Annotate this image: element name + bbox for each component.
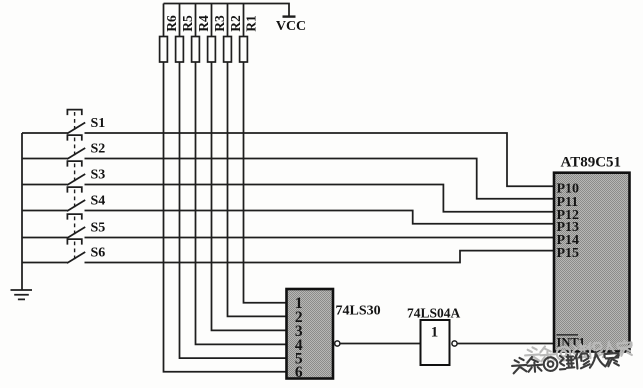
svg-text:1: 1 — [431, 325, 439, 341]
svg-text:R6: R6 — [164, 15, 179, 32]
svg-text:R2: R2 — [228, 15, 243, 32]
switch S5 actuator dashed stem — [74, 217, 76, 238]
switch S2 actuator dashed stem — [74, 138, 76, 159]
switch S4 left wire — [22, 210, 68, 212]
switch S3 button cap — [67, 161, 81, 167]
wire S3 route to P12 — [85, 185, 555, 212]
switch S4 arm — [67, 200, 85, 211]
resistor R5 body — [176, 37, 184, 63]
ground — [11, 290, 33, 299]
watermark dark text — [512, 350, 620, 373]
svg-text:VCC: VCC — [276, 19, 306, 34]
wire column R2 to 74LS30 pin2 — [228, 62, 287, 316]
switch S1 arm — [67, 123, 85, 134]
ground bus wire — [21, 133, 23, 290]
switch S6 button cap — [67, 239, 81, 245]
svg-text:R1: R1 — [244, 15, 259, 32]
wire resistor column R6 upper — [163, 4, 165, 37]
switch S6 left wire — [22, 262, 68, 264]
wire S5 route to P14 — [85, 237, 555, 239]
switch S1 button cap — [67, 110, 81, 116]
wire column R4 to 74LS30 pin4 — [196, 62, 287, 344]
svg-text:R3: R3 — [212, 15, 227, 32]
switch S5 left wire — [22, 237, 68, 239]
switch S5 button cap — [67, 214, 81, 220]
wire S1 route to P10 — [85, 133, 555, 186]
svg-text:R5: R5 — [180, 15, 195, 32]
watermark light echo copy — [525, 340, 633, 363]
switch S4 button cap — [67, 187, 81, 193]
wire column R5 to 74LS30 pin5 — [180, 62, 287, 358]
resistor R6 body — [160, 37, 168, 63]
resistor R1 body — [240, 37, 248, 63]
gate 74LS30 U1 box — [287, 289, 334, 379]
svg-text:S2: S2 — [91, 142, 106, 157]
svg-text:S6: S6 — [91, 246, 106, 261]
74LS30 output bubble — [335, 341, 340, 346]
wire resistor column R1 upper — [243, 4, 245, 37]
svg-text:S1: S1 — [91, 116, 106, 131]
wire S6 route to P15 — [85, 251, 555, 263]
wire column R3 to 74LS30 pin3 — [212, 62, 287, 330]
switch S2 arm — [67, 148, 85, 159]
svg-text:AT89C51: AT89C51 — [561, 154, 622, 170]
wire S2 route to P11 — [85, 159, 555, 199]
wire 74LS30 output to 74LS04A input — [340, 343, 421, 345]
switch S3 actuator dashed stem — [74, 164, 76, 185]
VCC power bar — [283, 15, 296, 17]
svg-text:74LS30: 74LS30 — [336, 304, 381, 319]
svg-text:S4: S4 — [91, 194, 106, 209]
switch S3 left wire — [22, 184, 68, 186]
resistor R4 body — [192, 37, 200, 63]
svg-text:S5: S5 — [91, 221, 106, 236]
wire resistor column R5 upper — [179, 4, 181, 37]
switch S2 button cap — [67, 135, 81, 141]
switch S5 arm — [67, 227, 85, 238]
wire resistor column R4 upper — [195, 4, 197, 37]
wire resistor column R2 upper — [227, 4, 229, 37]
switch S4 actuator dashed stem — [74, 190, 76, 211]
pin INT1 overline — [557, 334, 579, 336]
wire resistor column R3 upper — [211, 4, 213, 37]
wire column R1 to 74LS30 pin1 — [244, 62, 287, 303]
switch S2 left wire — [22, 158, 68, 160]
switch S6 arm — [67, 252, 85, 263]
svg-text:74LS04A: 74LS04A — [407, 306, 461, 321]
inverter 74LS04A U2 box — [421, 320, 450, 365]
svg-text:R4: R4 — [196, 15, 211, 32]
wire 74LS04A output to INT1 — [457, 343, 554, 345]
wire top VCC rail — [164, 4, 290, 16]
switch S3 arm — [67, 174, 85, 185]
wire column R6 to 74LS30 pin6 — [164, 62, 287, 372]
wire S4 route to P13 — [85, 211, 555, 224]
svg-text:S3: S3 — [91, 168, 106, 183]
switch S6 actuator dashed stem — [74, 242, 76, 263]
resistor R2 body — [224, 37, 232, 63]
svg-text:6: 6 — [295, 364, 303, 381]
74LS04A output bubble — [452, 341, 457, 346]
resistor R3 body — [208, 37, 216, 63]
svg-text:P15: P15 — [557, 246, 580, 261]
switch S1 actuator dashed stem — [74, 112, 76, 133]
IC AT89C51 U3 box — [554, 173, 630, 352]
switch S1 left wire — [22, 132, 68, 134]
